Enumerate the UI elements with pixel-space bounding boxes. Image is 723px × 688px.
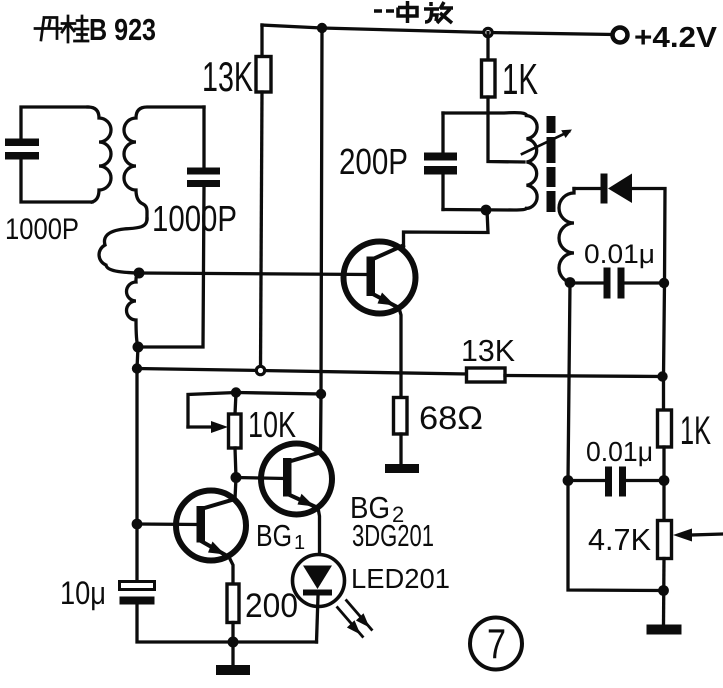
wire right rail upper: [664, 283, 665, 410]
wire IF tank left side: [441, 113, 444, 152]
transistor BG2 circle: [261, 444, 332, 515]
node bottom right junction: [658, 585, 669, 596]
svg-text:0.01μ: 0.01μ: [586, 436, 653, 467]
wire BG1 collector up: [235, 478, 236, 500]
svg-text:1000P: 1000P: [152, 198, 237, 239]
svg-text:LED201: LED201: [351, 563, 450, 594]
resistor R 1K (right, vertical): [658, 410, 672, 447]
core IF transformer dashed core: [547, 116, 556, 212]
capacitor C 1000P mid plates: [187, 168, 220, 175]
svg-text:0.01μ: 0.01μ: [584, 239, 655, 269]
wire 1000P mid bottom: [138, 187, 204, 347]
wire coil bottom to bias line: [137, 347, 138, 369]
inductor detector secondary coil: [559, 189, 574, 284]
wire BG1 base: [137, 522, 198, 526]
svg-text:7: 7: [487, 620, 506, 667]
wire LED bottom: [317, 596, 319, 642]
label 放 strokes: [424, 2, 453, 23]
wire 13K bottom to bias line: [261, 92, 263, 371]
wire left tank loop: [21, 107, 88, 139]
node BG1 base junction: [132, 519, 143, 530]
inductor input transformer lower winding: [127, 273, 140, 347]
svg-text:68Ω: 68Ω: [419, 400, 483, 436]
svg-text:3DG201: 3DG201: [352, 518, 434, 553]
node supply junction at 13K/rail: [317, 23, 327, 33]
wire collector link tank to Q1: [404, 210, 489, 247]
wire secondary top to diode: [574, 187, 600, 190]
capacitor C 0.01u lower left plate: [605, 467, 612, 497]
svg-text:+4.2V: +4.2V: [634, 22, 718, 54]
arrow 4.7K wiper: [690, 534, 722, 535]
svg-text:1K: 1K: [502, 55, 538, 104]
svg-text:BG: BG: [256, 518, 292, 553]
resistor R 68ohm: [394, 398, 408, 435]
transistor BG1 emitter arrow: [208, 542, 225, 555]
node 10K top junction: [231, 387, 241, 397]
inductor input transformer middle winding: [99, 219, 147, 273]
ground right: [647, 625, 682, 635]
wire 13K top lead: [260, 25, 263, 57]
node detector cap right junction: [659, 278, 669, 288]
resistor R 200: [227, 584, 239, 623]
arrow 10K adjust: [188, 425, 212, 428]
wire left rail down: [135, 369, 138, 583]
wire 1K bottom to transformer tap: [488, 97, 524, 162]
capacitor C 0.01u upper right plate: [618, 268, 625, 299]
wire BG1 emitter to 200: [229, 557, 233, 584]
node bias 13K junction: [256, 366, 264, 374]
wire IF tank top: [443, 113, 527, 116]
svg-text:10μ: 10μ: [60, 575, 106, 611]
ground 68ohm: [385, 464, 419, 473]
node left rail cap2 junction: [563, 475, 574, 486]
capacitor C 0.01u upper left plate: [604, 268, 611, 299]
wire BG2 emitter to LED: [318, 508, 320, 555]
svg-text:10K: 10K: [248, 404, 296, 445]
wire detector left rail: [568, 283, 664, 591]
node tank bottom junction: [481, 205, 492, 216]
node BG1 collector / BG2 base junction: [231, 472, 242, 483]
resistor R 13K (bias, vertical): [256, 57, 271, 93]
diode detector triangle: [608, 174, 632, 204]
wire 10u bottom to ground rail: [137, 605, 317, 643]
wire 10K bottom lead: [235, 448, 236, 478]
capacitor C 10u electrolytic top plate: [120, 582, 155, 590]
wire 4.7K bottom: [662, 559, 666, 626]
wire 68ohm to ground: [399, 434, 402, 465]
symbol circled 7: [470, 618, 522, 670]
wire IF tank bottom: [443, 209, 527, 211]
capacitor C 0.01u lower right plate: [619, 467, 626, 497]
wire 1K-right to 4.7K: [662, 447, 665, 520]
node supply junction at 1K: [484, 28, 492, 36]
svg-text:B 923: B 923: [89, 12, 156, 47]
wire collector rail of BG2 from supply: [321, 28, 323, 453]
wire bias line horizontal: [137, 369, 467, 375]
node coil bottom junction: [133, 342, 144, 353]
resistor R 1K (collector load, vertical): [482, 60, 496, 97]
node tap junction: [134, 268, 145, 279]
capacitor C 200P plate bottom: [424, 166, 457, 175]
transistor BG2 collector lead: [288, 453, 321, 463]
transistor Q1 base bar: [367, 257, 376, 297]
inductor input transformer secondary upper: [124, 107, 204, 219]
svg-text:1000P: 1000P: [5, 213, 79, 246]
node right rail / bias wire junction: [657, 371, 667, 381]
svg-text:200P: 200P: [339, 141, 408, 182]
LED LED201 circle: [293, 555, 345, 607]
label 一中放 dashes: [374, 1, 453, 23]
svg-text:1: 1: [294, 532, 305, 554]
resistor R 10K: [229, 414, 242, 448]
transistor BG2 emitter arrow: [298, 494, 315, 507]
arrow LED light 1: [338, 608, 363, 637]
wire BG2 base: [236, 478, 284, 479]
transistor BG2 base bar: [283, 458, 292, 497]
terminal +4.2V: [613, 28, 628, 43]
transistor Q1 IF amp circle: [344, 242, 416, 314]
label 中 strokes: [398, 1, 417, 23]
wire Q1 base from tap: [139, 273, 367, 275]
label 丹桂 (strokes): [35, 16, 88, 42]
transistor BG1 base bar: [197, 506, 206, 543]
node junction 10K-top rail: [316, 389, 326, 399]
transistor Q1 emitter arrow: [378, 293, 396, 306]
capacitor C 10u electrolytic bottom plate: [120, 597, 155, 605]
svg-text:200: 200: [245, 587, 298, 625]
ground bottom center: [231, 642, 234, 666]
transistor Q1 collector lead: [372, 246, 403, 260]
svg-text:13K: 13K: [461, 333, 515, 368]
arrow LED light 2: [347, 601, 372, 630]
diode detector cathode bar: [601, 174, 608, 204]
transistor Q1 emitter lead: [371, 293, 399, 308]
transistor BG1 circle: [176, 491, 246, 561]
LED cathode bar: [303, 590, 332, 596]
transistor BG1 collector lead: [201, 499, 235, 509]
potentiometer R 4.7K: [658, 521, 672, 559]
wire Q1 emitter down: [399, 308, 401, 398]
inductor input transformer primary: [88, 107, 111, 202]
node ground junction: [228, 637, 239, 648]
capacitor C 1000P left plates: [5, 139, 39, 147]
wire diode to right rail: [632, 189, 665, 284]
wire secondary top to 1000P branch: [202, 107, 205, 167]
inductor IF transformer primary coil: [527, 116, 538, 209]
wire bias line right: [505, 376, 663, 377]
transistor BG2 emitter lead: [288, 494, 319, 508]
node detector coil bottom: [565, 277, 576, 288]
wire feedback top: [188, 393, 321, 428]
transistor BG1 emitter lead: [201, 541, 229, 557]
svg-text:13K: 13K: [202, 53, 253, 100]
wire 0.01u lower leads: [568, 479, 605, 482]
node right rail cap2 junction: [659, 475, 670, 486]
resistor R 13K (AGC, horizontal): [467, 368, 506, 382]
wire 0.01u upper leads: [570, 281, 604, 284]
wire 200P bottom lead: [441, 175, 444, 210]
node bias left junction: [132, 363, 142, 373]
wire 200 bottom: [231, 623, 234, 643]
wire 10K top lead: [235, 393, 236, 415]
svg-text:1K: 1K: [680, 409, 711, 453]
LED triangle: [303, 566, 332, 590]
svg-text:4.7K: 4.7K: [588, 522, 651, 557]
capacitor C 200P plate top: [424, 153, 457, 161]
wire 1K top lead: [486, 33, 489, 61]
wire supply rail top: [262, 25, 612, 35]
arrow adjustable core: [522, 132, 569, 155]
